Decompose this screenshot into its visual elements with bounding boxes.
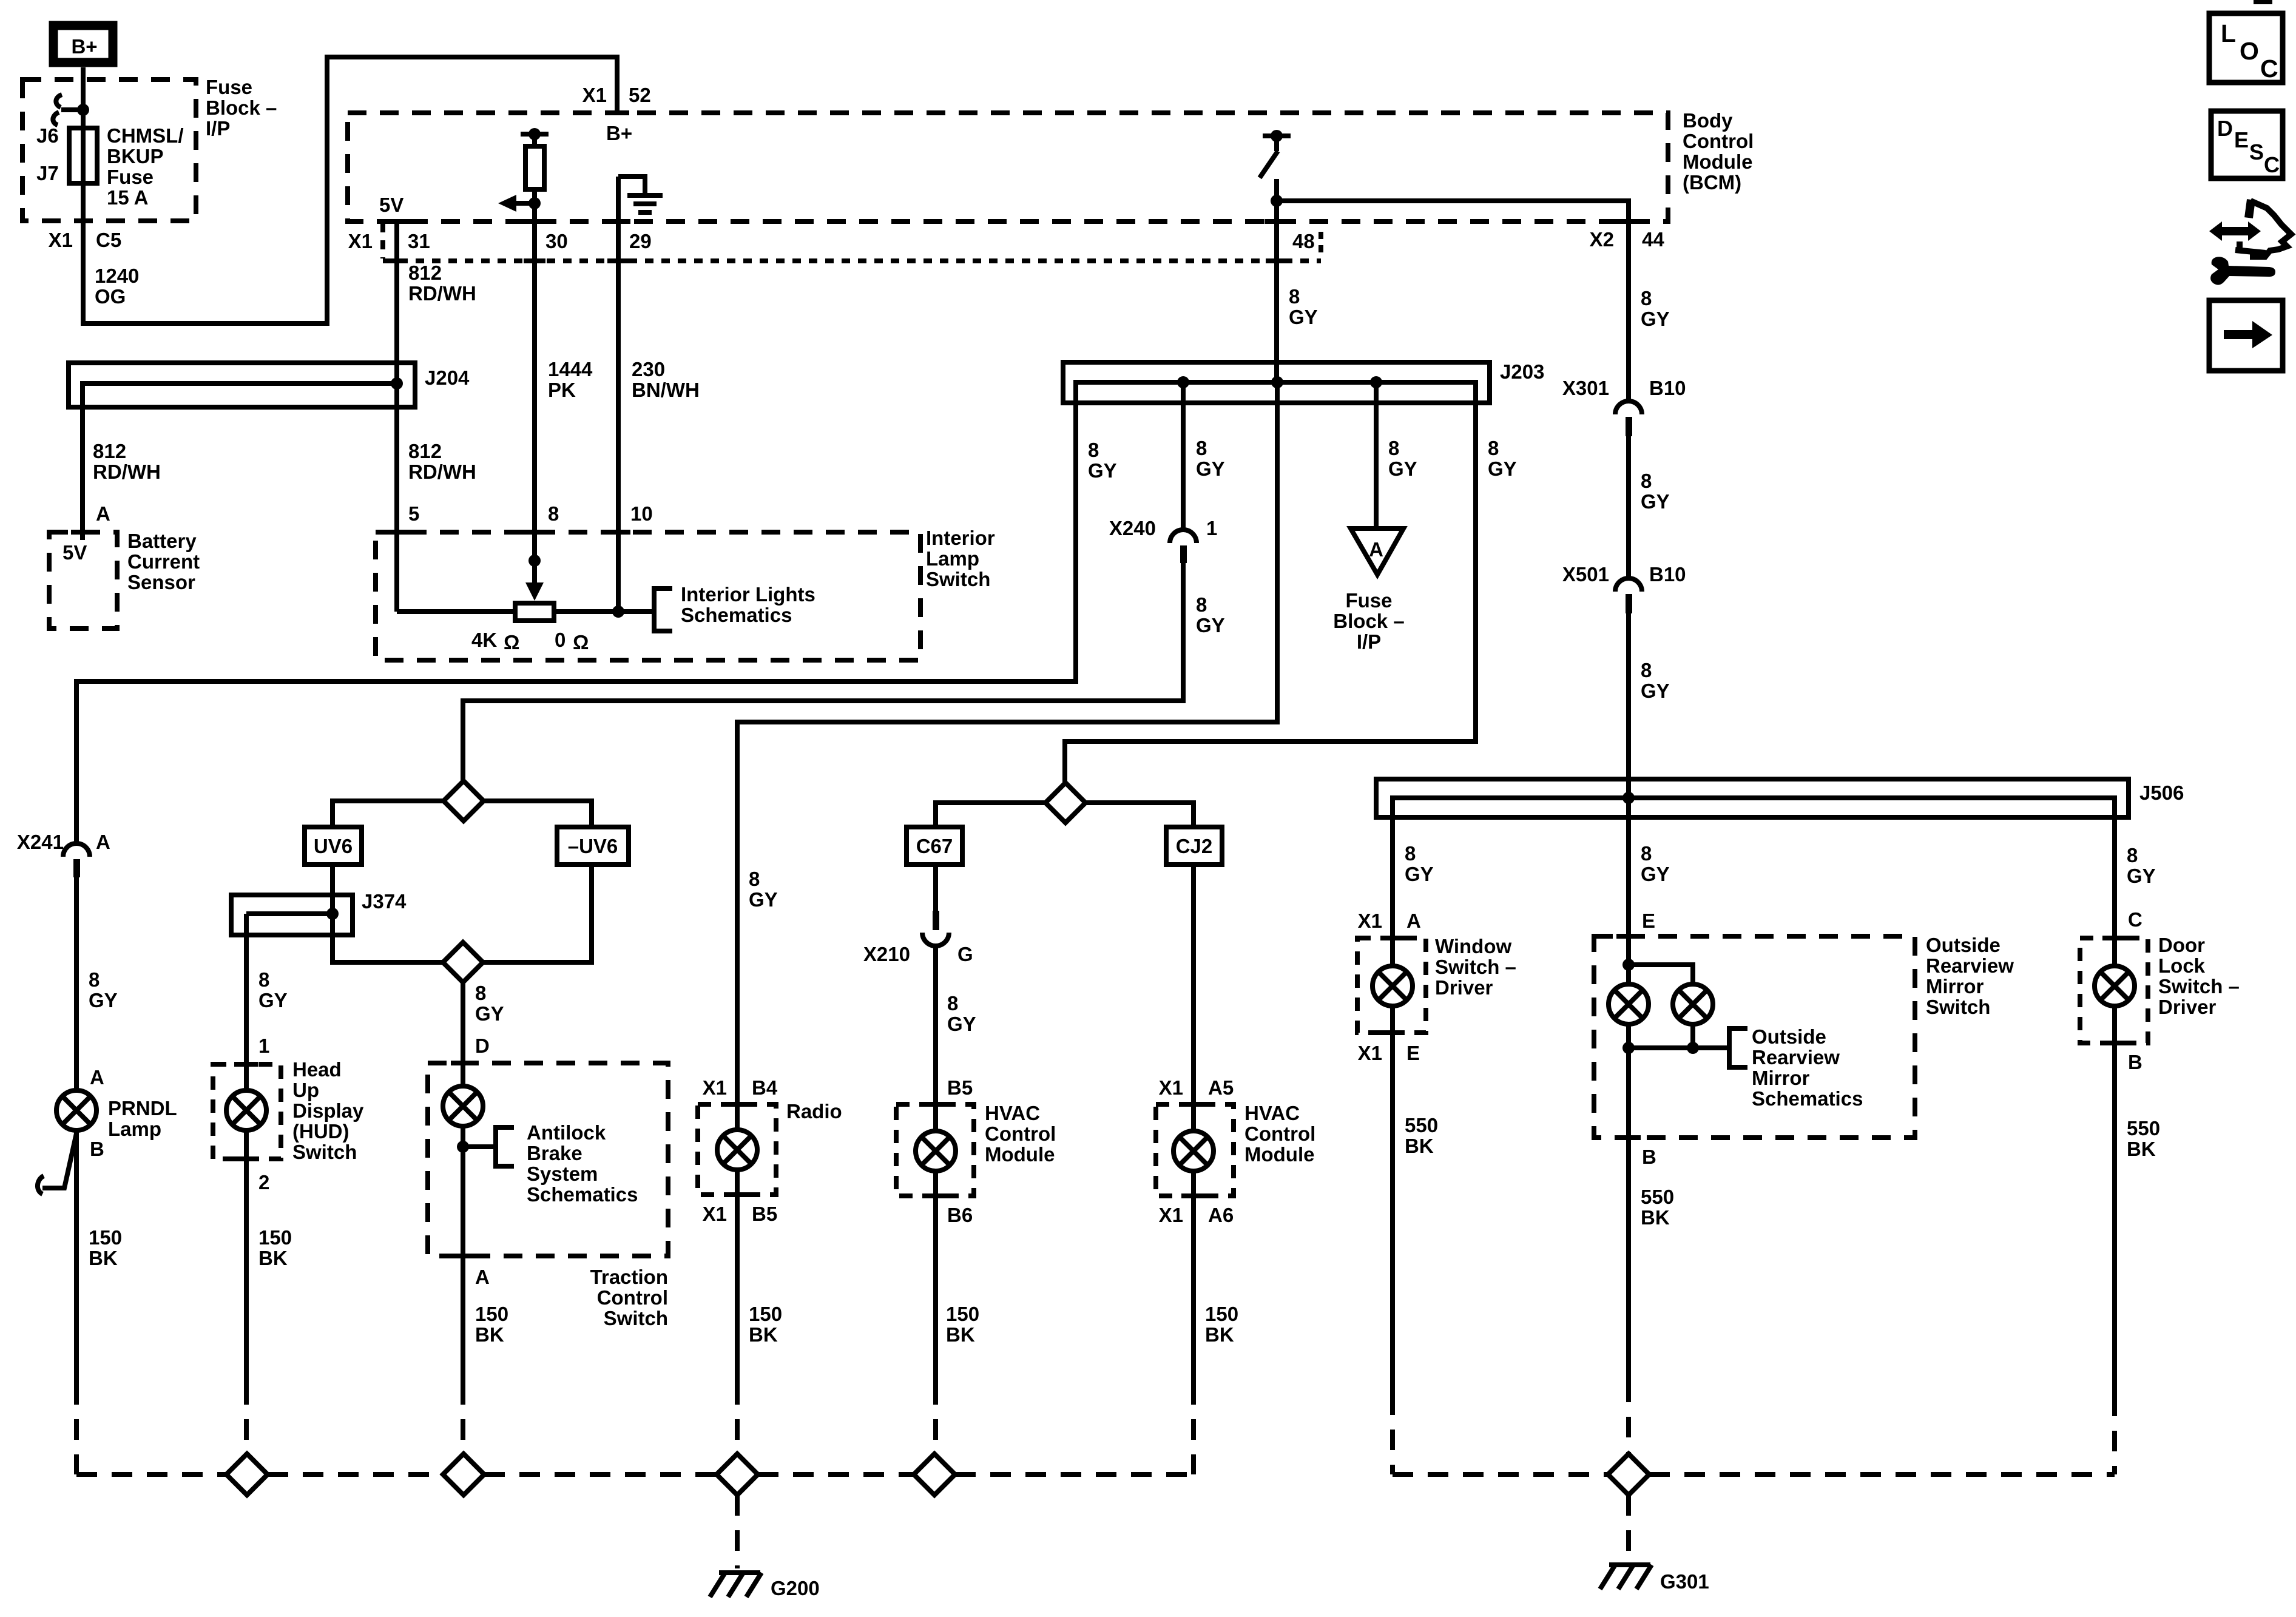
inline connector X301 B10	[1615, 401, 1642, 436]
svg-text:150: 150	[475, 1303, 508, 1325]
svg-text:Rearview: Rearview	[1752, 1046, 1840, 1068]
off-page bracket interior lights	[654, 589, 672, 631]
svg-text:Schematics: Schematics	[1752, 1087, 1863, 1110]
svg-text:Switch –: Switch –	[1435, 956, 1516, 978]
dashed drop to G200	[735, 1495, 740, 1568]
svg-text:C: C	[2260, 55, 2278, 83]
svg-text:GY: GY	[1641, 490, 1670, 513]
pin ticks lamp switch	[385, 530, 409, 535]
svg-text:1444: 1444	[548, 358, 593, 380]
svg-text:I/P: I/P	[1357, 630, 1381, 653]
svg-text:O: O	[2240, 37, 2259, 65]
J203 splice pack	[1063, 362, 1490, 403]
ground symbol G301	[1600, 1565, 1652, 1589]
svg-text:8: 8	[1641, 287, 1652, 309]
svg-text:Current: Current	[127, 550, 200, 573]
svg-text:8: 8	[548, 502, 559, 525]
switch J6 inside fuse block	[53, 95, 89, 125]
svg-text:GY: GY	[2127, 865, 2156, 887]
outside rearview mirror switch dashed box	[1594, 936, 1915, 1138]
svg-text:X301: X301	[1562, 377, 1609, 399]
svg-text:PK: PK	[548, 379, 576, 401]
svg-text:CJ2: CJ2	[1176, 835, 1213, 857]
svg-text:8: 8	[1196, 593, 1207, 616]
svg-text:J204: J204	[425, 366, 470, 389]
svg-text:C: C	[2128, 908, 2142, 931]
wire 8 GY J506 to mirror switch	[1626, 798, 1631, 984]
node below traction lamp	[457, 1141, 469, 1153]
svg-text:Up: Up	[292, 1079, 319, 1101]
wire 150 BK HVAC 1	[933, 1171, 938, 1384]
svg-text:1240: 1240	[95, 265, 139, 287]
svg-text:GY: GY	[1088, 459, 1117, 482]
wire 8 GY J506 to window switch	[1390, 798, 1395, 966]
svg-text:A5: A5	[1208, 1076, 1234, 1099]
svg-text:System: System	[527, 1163, 598, 1185]
dashed ground drop door lock	[2112, 1396, 2117, 1474]
HUD switch dashed box	[213, 1064, 281, 1159]
pin ticks window switch	[1380, 936, 1405, 940]
dashed ground bus right	[1393, 1472, 2115, 1477]
pin ticks HUD	[234, 1062, 258, 1067]
svg-text:150: 150	[258, 1226, 292, 1249]
svg-text:A: A	[90, 1066, 104, 1089]
svg-text:Mirror: Mirror	[1926, 975, 1984, 998]
svg-text:S: S	[2249, 140, 2264, 164]
svg-text:X1: X1	[582, 84, 607, 106]
svg-text:X1: X1	[1159, 1204, 1183, 1226]
svg-text:Interior: Interior	[926, 527, 995, 549]
svg-text:B10: B10	[1649, 377, 1686, 399]
svg-text:5: 5	[408, 502, 419, 525]
mirror lamp 2	[1673, 984, 1713, 1024]
svg-text:Switch: Switch	[1926, 996, 1990, 1018]
diamond splice upper UV6	[444, 781, 484, 821]
svg-text:UV6: UV6	[314, 835, 353, 857]
wire 812 RD/WH to battery current sensor	[80, 383, 85, 540]
svg-text:812: 812	[408, 440, 442, 462]
svg-text:BKUP: BKUP	[107, 145, 164, 167]
wire below X240 to diamond	[463, 563, 1183, 781]
svg-text:44: 44	[1642, 228, 1664, 251]
svg-text:8: 8	[475, 982, 486, 1004]
svg-text:RD/WH: RD/WH	[408, 282, 476, 305]
svg-text:BK: BK	[1641, 1206, 1670, 1229]
svg-text:Ω: Ω	[504, 631, 519, 653]
svg-text:8: 8	[258, 968, 269, 991]
svg-text:B: B	[1642, 1146, 1656, 1168]
wire 8 GY X210 to HVAC control module	[933, 946, 938, 1131]
svg-text:230: 230	[632, 358, 665, 380]
svg-text:Control: Control	[985, 1122, 1056, 1145]
door lock switch dashed box	[2080, 938, 2148, 1043]
ground diamond HVAC1	[914, 1454, 955, 1495]
wire diamond to UV6	[333, 801, 444, 827]
svg-text:Schematics: Schematics	[527, 1183, 638, 1206]
svg-text:8: 8	[1088, 439, 1099, 461]
svg-text:8: 8	[749, 868, 760, 890]
svg-text:812: 812	[408, 262, 442, 284]
svg-text:GY: GY	[947, 1013, 976, 1035]
svg-text:A: A	[96, 502, 110, 525]
svg-text:Block –: Block –	[206, 96, 277, 119]
HVAC control module dashed box 1	[896, 1104, 974, 1196]
svg-text:Mirror: Mirror	[1752, 1067, 1810, 1089]
svg-text:4K: 4K	[471, 629, 497, 651]
inline connector X210 pin G	[922, 911, 949, 946]
svg-text:GY: GY	[89, 989, 118, 1011]
svg-text:550: 550	[2127, 1117, 2160, 1139]
fuse CHMSL/BKUP 15A	[69, 128, 97, 183]
ground symbol inside BCM	[618, 177, 663, 212]
wire 550 BK window switch	[1390, 1006, 1395, 1394]
svg-text:Module: Module	[985, 1143, 1055, 1166]
potentiometer resistor element	[515, 603, 554, 621]
svg-text:BN/WH: BN/WH	[632, 379, 700, 401]
svg-text:C: C	[2264, 152, 2280, 177]
svg-text:Schematics: Schematics	[681, 604, 792, 626]
svg-text:B+: B+	[606, 122, 632, 144]
svg-text:OG: OG	[95, 285, 126, 308]
svg-text:Outside: Outside	[1926, 934, 2001, 956]
bracket to ABS schematics	[463, 1127, 514, 1166]
window switch lamp	[1373, 966, 1413, 1006]
icon DESC box	[2211, 111, 2283, 178]
svg-text:550: 550	[1405, 1114, 1438, 1136]
svg-text:GY: GY	[1196, 457, 1225, 480]
svg-text:5V: 5V	[379, 194, 403, 216]
icon arrow box	[2209, 300, 2283, 371]
switch blade below PRNDL lamp	[38, 1133, 76, 1194]
svg-text:B5: B5	[752, 1203, 777, 1225]
wire 8 GY J203 to fuse block triangle	[1374, 382, 1379, 528]
wire 150 BK radio	[735, 1170, 740, 1384]
svg-text:B+: B+	[71, 35, 97, 58]
ground diamond mirror G301	[1608, 1454, 1649, 1495]
svg-text:8: 8	[2127, 844, 2138, 866]
svg-text:GY: GY	[749, 888, 778, 911]
svg-text:X1: X1	[703, 1076, 727, 1099]
ground diamond HUD	[226, 1454, 268, 1495]
svg-text:8: 8	[1641, 659, 1652, 681]
icon wrench	[2210, 257, 2275, 285]
svg-text:8: 8	[1641, 842, 1652, 865]
interior lamp switch dashed box	[376, 532, 920, 660]
svg-text:GY: GY	[475, 1002, 504, 1025]
wire 812 RD/WH from BCM pin 31 through J204 to lamp switch	[394, 221, 399, 612]
inline connector X501 B10	[1615, 578, 1642, 613]
wire below mirror lamps	[1626, 1024, 1631, 1138]
svg-text:Ω: Ω	[573, 631, 589, 653]
svg-text:Control: Control	[1683, 130, 1754, 152]
pin ticks mirror switch	[1616, 934, 1641, 939]
pin ticks radio	[725, 1102, 749, 1107]
option box C67	[907, 827, 962, 865]
svg-text:5V: 5V	[62, 541, 87, 564]
svg-text:2: 2	[258, 1171, 269, 1193]
svg-text:31: 31	[408, 230, 430, 252]
svg-text:Driver: Driver	[2158, 996, 2217, 1018]
svg-text:Interior Lights: Interior Lights	[681, 583, 815, 606]
svg-text:A: A	[1406, 910, 1421, 932]
pin ticks traction	[451, 1061, 475, 1065]
svg-text:Switch: Switch	[926, 568, 990, 590]
svg-text:BK: BK	[749, 1323, 778, 1346]
svg-text:8: 8	[1405, 842, 1416, 865]
wire C67 to X210	[933, 865, 938, 911]
node above mirror lamps	[1622, 959, 1635, 971]
svg-text:BK: BK	[258, 1247, 288, 1269]
wire 8 GY X241 to PRNDL lamp	[74, 877, 79, 1090]
svg-text:HVAC: HVAC	[1244, 1102, 1300, 1124]
svg-text:Lock: Lock	[2158, 954, 2206, 977]
wire 150 BK traction	[461, 1126, 465, 1384]
svg-text:Module: Module	[1683, 150, 1752, 173]
inline connector X241 pin A	[63, 843, 90, 877]
svg-text:Lamp: Lamp	[108, 1118, 161, 1140]
wire diamond3 to CJ2	[1086, 803, 1194, 827]
svg-text:B5: B5	[947, 1076, 973, 1099]
svg-text:Control: Control	[597, 1286, 668, 1309]
J506 splice pack	[1376, 779, 2129, 817]
wire to BCM pin X2-44	[1277, 201, 1629, 401]
svg-text:D: D	[2217, 116, 2233, 141]
diamond splice 3 C67 CJ2	[1045, 783, 1086, 823]
svg-text:GY: GY	[1388, 457, 1417, 480]
pin ticks HVAC 1	[923, 1102, 948, 1107]
svg-text:Head: Head	[292, 1058, 342, 1081]
fuse block I/P triangle connector A	[1351, 528, 1403, 575]
ground diamond radio G200	[717, 1454, 758, 1495]
wire 230 BN/WH from BCM pin 29 to lamp switch	[616, 177, 621, 612]
svg-text:X240: X240	[1109, 517, 1156, 539]
svg-text:812: 812	[93, 440, 126, 462]
svg-text:Fuse: Fuse	[107, 166, 154, 188]
svg-text:Battery: Battery	[127, 530, 197, 552]
svg-text:BK: BK	[1205, 1323, 1234, 1346]
svg-text:15 A: 15 A	[107, 186, 148, 209]
svg-text:X1: X1	[1159, 1076, 1183, 1099]
svg-text:X1: X1	[703, 1203, 727, 1225]
wiper arrow	[525, 555, 544, 601]
svg-text:150: 150	[749, 1303, 782, 1325]
svg-text:Module: Module	[1244, 1143, 1314, 1166]
svg-text:B6: B6	[947, 1204, 973, 1226]
svg-text:Fuse: Fuse	[206, 76, 252, 98]
svg-text:G301: G301	[1660, 1570, 1709, 1593]
wire 550 BK mirror switch	[1626, 1138, 1631, 1382]
BCM X1 connector row dotted line	[383, 223, 1321, 261]
pin ticks door lock	[2102, 936, 2127, 940]
svg-text:GY: GY	[1488, 457, 1517, 480]
dashed ground drop window switch	[1390, 1394, 1395, 1474]
svg-text:X501: X501	[1562, 563, 1609, 586]
wire CJ2 to HVAC module 2	[1191, 865, 1196, 1131]
dashed ground drop HVAC1	[933, 1384, 938, 1454]
svg-text:A: A	[96, 831, 110, 853]
wire 8 GY J203 to X240	[1181, 382, 1186, 530]
dashed drop to G301	[1626, 1495, 1631, 1561]
svg-text:E: E	[1406, 1042, 1420, 1064]
resistor inside BCM	[521, 128, 549, 203]
svg-text:GY: GY	[1641, 308, 1670, 330]
wire 8 GY J203 to radio	[737, 382, 1277, 1130]
svg-text:BK: BK	[475, 1323, 504, 1346]
svg-text:A6: A6	[1208, 1204, 1234, 1226]
ground symbol G200	[710, 1573, 761, 1597]
svg-text:Driver: Driver	[1435, 976, 1493, 999]
option box CJ2	[1166, 827, 1222, 865]
dashed ground drop traction	[461, 1384, 465, 1454]
wire diamond2 down to traction lamp	[461, 982, 465, 1086]
svg-text:150: 150	[89, 1226, 122, 1249]
PRNDL lamp	[56, 1090, 96, 1130]
svg-text:B: B	[90, 1138, 104, 1160]
wire 150 BK HUD	[244, 1130, 249, 1384]
svg-text:B10: B10	[1649, 563, 1686, 586]
svg-text:D: D	[475, 1035, 490, 1057]
icon LOC box	[2209, 13, 2283, 83]
svg-text:Block –: Block –	[1333, 610, 1404, 632]
svg-text:150: 150	[946, 1303, 979, 1325]
svg-text:J506: J506	[2139, 781, 2184, 804]
potentiometer wiper arrow inside BCM	[498, 195, 541, 212]
svg-text:Display: Display	[292, 1099, 364, 1122]
svg-text:X1: X1	[49, 229, 73, 251]
svg-text:I/P: I/P	[206, 117, 230, 140]
svg-text:GY: GY	[258, 989, 288, 1011]
ground diamond traction	[443, 1454, 484, 1495]
svg-text:150: 150	[1205, 1303, 1238, 1325]
svg-text:PRNDL: PRNDL	[108, 1097, 177, 1119]
window switch dashed box	[1357, 938, 1426, 1033]
lamp switch internal wiring	[397, 609, 515, 614]
wire -UV6 to diamond 2	[483, 865, 592, 962]
svg-text:48: 48	[1292, 230, 1315, 252]
svg-text:550: 550	[1641, 1186, 1674, 1208]
svg-text:8: 8	[1289, 285, 1300, 308]
svg-text:Switch: Switch	[604, 1307, 668, 1329]
svg-text:Switch: Switch	[292, 1141, 357, 1163]
svg-text:X2: X2	[1590, 228, 1614, 251]
svg-text:RD/WH: RD/WH	[93, 461, 161, 483]
radio dashed box	[698, 1104, 776, 1195]
svg-text:X1: X1	[348, 230, 373, 252]
svg-text:(HUD): (HUD)	[292, 1120, 349, 1143]
svg-text:52: 52	[629, 84, 651, 106]
svg-text:J203: J203	[1500, 360, 1544, 383]
svg-text:X1: X1	[1358, 1042, 1382, 1064]
svg-text:A: A	[1369, 538, 1383, 561]
svg-text:G: G	[957, 943, 973, 965]
svg-text:8: 8	[1641, 470, 1652, 492]
svg-text:HVAC: HVAC	[985, 1102, 1040, 1124]
wire to mirror lamp 2	[1629, 965, 1693, 984]
svg-text:Switch –: Switch –	[2158, 975, 2240, 998]
node branch to X2-44	[1271, 195, 1283, 207]
svg-text:X1: X1	[1358, 910, 1382, 932]
svg-text:E: E	[2234, 127, 2249, 152]
fuse block I/P dashed box	[22, 79, 196, 221]
wire 1240 OG from B+ fuse to BCM X1-52	[83, 57, 617, 323]
svg-text:B: B	[2128, 1051, 2142, 1073]
svg-text:J6: J6	[36, 124, 59, 147]
HVAC lamp 2	[1173, 1131, 1214, 1171]
wire diamond to -UV6	[484, 801, 592, 827]
svg-text:J7: J7	[36, 162, 59, 184]
svg-text:G200: G200	[771, 1577, 820, 1599]
svg-text:1: 1	[258, 1035, 269, 1057]
svg-text:Control: Control	[1244, 1122, 1315, 1145]
svg-text:GY: GY	[1641, 680, 1670, 702]
svg-text:GY: GY	[1641, 863, 1670, 885]
body control module BCM dashed box	[348, 113, 1668, 221]
svg-text:1: 1	[1206, 517, 1217, 539]
svg-text:BK: BK	[946, 1323, 975, 1346]
svg-text:Sensor: Sensor	[127, 571, 195, 593]
svg-text:RD/WH: RD/WH	[408, 461, 476, 483]
svg-text:Radio: Radio	[786, 1100, 842, 1122]
svg-text:(BCM): (BCM)	[1683, 171, 1741, 194]
bracket to mirror schematics	[1729, 1028, 1747, 1067]
wire 8 GY J203 to C67/CJ2 diamond	[1065, 382, 1476, 783]
page mark top right	[2254, 0, 2272, 4]
wire 550 BK door lock	[2112, 1006, 2117, 1396]
icon hand with double arrow	[2209, 200, 2291, 257]
svg-text:C5: C5	[96, 229, 121, 251]
pin ticks HVAC 2	[1181, 1102, 1206, 1107]
svg-text:BK: BK	[2127, 1138, 2156, 1160]
dashed ground bus left	[76, 1472, 1194, 1477]
svg-text:–UV6: –UV6	[568, 835, 618, 857]
J204 splice pack	[69, 363, 415, 407]
traction control dashed box	[428, 1063, 668, 1256]
svg-text:8: 8	[1196, 437, 1207, 459]
wire 8 GY J506 to door lock switch	[2112, 798, 2117, 966]
wire 8 GY J374 to HUD switch	[244, 914, 249, 1090]
wire 1444 PK from BCM pin 30 to lamp switch wiper	[532, 203, 537, 582]
diamond splice 2 traction	[443, 942, 483, 982]
node at pin 10 leg	[612, 606, 624, 618]
svg-text:Brake: Brake	[527, 1142, 582, 1164]
svg-text:8: 8	[1488, 437, 1499, 459]
svg-text:30: 30	[545, 230, 568, 252]
dashed ground drop HVAC2	[1191, 1384, 1196, 1474]
svg-text:B4: B4	[752, 1076, 778, 1099]
dashed ground drop PRNDL	[74, 1384, 79, 1474]
svg-text:X241: X241	[17, 831, 64, 853]
svg-text:C67: C67	[916, 835, 953, 857]
inline connector X240 pin 1	[1170, 530, 1197, 563]
svg-text:Lamp: Lamp	[926, 547, 979, 570]
wire 8 GY X501 to J506	[1626, 613, 1631, 798]
dashed ground drop HUD	[244, 1384, 249, 1454]
svg-text:Door: Door	[2158, 934, 2205, 956]
svg-text:8: 8	[89, 968, 100, 991]
wire 8 GY J203 to X241 PRNDL	[76, 382, 1076, 843]
option box -UV6	[557, 827, 629, 865]
svg-text:E: E	[1642, 910, 1655, 932]
svg-text:Traction: Traction	[590, 1266, 668, 1288]
HVAC control module dashed box 2	[1156, 1104, 1234, 1196]
door lock lamp	[2095, 966, 2135, 1006]
svg-text:8: 8	[947, 992, 958, 1014]
svg-text:L: L	[2221, 19, 2236, 47]
svg-text:J374: J374	[362, 890, 407, 913]
svg-text:Fuse: Fuse	[1345, 589, 1392, 612]
svg-text:10: 10	[630, 502, 653, 525]
svg-text:Rearview: Rearview	[1926, 954, 2014, 977]
